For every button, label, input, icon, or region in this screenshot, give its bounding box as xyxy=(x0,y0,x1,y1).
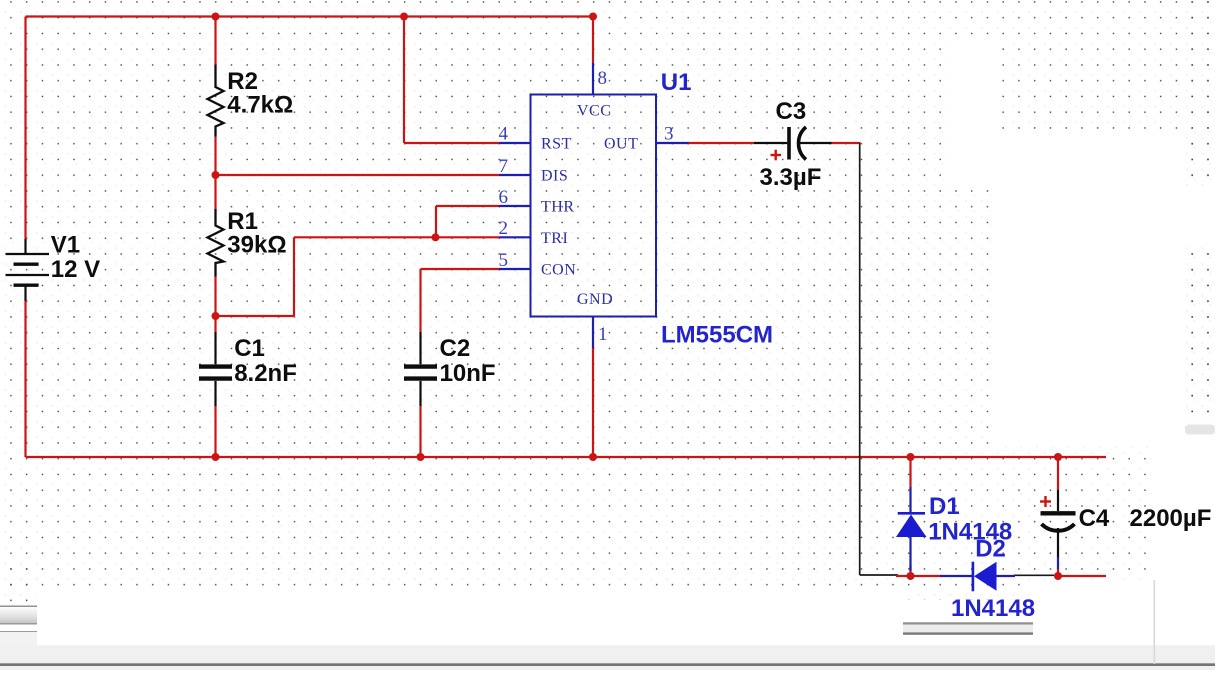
junction top RST xyxy=(400,13,408,21)
wire VCC pin8 drop xyxy=(592,17,594,64)
wire CON drop to C2 xyxy=(419,269,421,332)
wire C4 bottom lead red xyxy=(1057,568,1059,576)
wire D2 left lead red xyxy=(910,575,942,577)
wire battery negative to ground rail xyxy=(24,300,26,457)
wire C4 top lead red xyxy=(1057,457,1059,490)
op-amp/timer U1 LM555CM body xyxy=(531,95,657,317)
wire D1 bottom lead red xyxy=(909,565,911,576)
wire CON to pin5 xyxy=(421,268,500,270)
wire node TRI to pin2 xyxy=(294,236,499,238)
capacitor C4 2200uF leads xyxy=(1057,490,1059,511)
svg-text:2200µF: 2200µF xyxy=(1130,505,1212,532)
capacitor C1 8.2nF xyxy=(199,332,232,406)
svg-text:CON: CON xyxy=(541,262,576,279)
capacitor C4 plates xyxy=(1041,511,1076,515)
capacitor C2 10nF xyxy=(404,332,437,406)
battery V1 12V xyxy=(6,239,50,301)
svg-text:4: 4 xyxy=(499,124,509,145)
C4 plus polarity mark xyxy=(1040,496,1051,507)
svg-text:3: 3 xyxy=(664,124,674,145)
svg-text:D2: D2 xyxy=(975,536,1006,563)
svg-text:U1: U1 xyxy=(661,69,692,96)
svg-text:C4: C4 xyxy=(1079,505,1110,532)
junction C2 ground xyxy=(417,453,425,461)
wire R1 bottom lead xyxy=(214,277,216,317)
wire R2 bottom to node DIS xyxy=(214,137,216,176)
wire node TRI horizontal 1 xyxy=(216,315,295,317)
wire RST to pin4 xyxy=(404,142,499,144)
wire net VCC top xyxy=(26,15,594,17)
wire D2 right black link xyxy=(1014,574,1054,576)
svg-text:DIS: DIS xyxy=(541,168,568,185)
svg-text:OUT: OUT xyxy=(604,136,638,153)
pin stub TRI pin2 xyxy=(499,236,531,238)
wire GND pin1 drop xyxy=(592,347,594,457)
capacitor C3 plates xyxy=(787,127,791,160)
svg-text:C1: C1 xyxy=(234,335,265,362)
junction TRI/THR node xyxy=(432,233,440,241)
capacitor C3 3.3uF leads xyxy=(754,142,787,144)
junction D1 top xyxy=(907,453,915,461)
svg-text:8: 8 xyxy=(598,68,608,89)
svg-text:39kΩ: 39kΩ xyxy=(227,231,286,258)
svg-text:2: 2 xyxy=(499,218,509,239)
wire D1 top lead red xyxy=(909,457,911,487)
svg-text:TRI: TRI xyxy=(541,230,568,247)
wire OUT to C3 xyxy=(688,142,754,144)
svg-text:VCC: VCC xyxy=(577,103,611,120)
svg-text:C2: C2 xyxy=(440,335,471,362)
wire net VCC left drop xyxy=(24,17,26,240)
junction top pin8 xyxy=(589,13,597,21)
svg-text:6: 6 xyxy=(499,187,509,208)
wire R2 top lead xyxy=(214,17,216,65)
wire C3 to corner xyxy=(831,142,861,144)
svg-text:3.3µF: 3.3µF xyxy=(760,164,822,191)
wire node out right stub xyxy=(1058,575,1106,577)
junction DIS node xyxy=(212,171,220,179)
wire C2 bottom red xyxy=(419,406,421,457)
svg-text:1: 1 xyxy=(598,324,608,345)
C3 plus polarity mark xyxy=(771,150,782,161)
wire RST drop from top rail xyxy=(403,17,405,144)
svg-text:LM555CM: LM555CM xyxy=(661,321,773,348)
pin stub GND pin1 xyxy=(592,316,594,348)
svg-text:8.2nF: 8.2nF xyxy=(234,360,297,387)
resistor R2 4.7k xyxy=(208,65,224,137)
svg-text:12 V: 12 V xyxy=(51,256,100,283)
junction C1 ground xyxy=(212,453,220,461)
svg-text:THR: THR xyxy=(541,199,575,216)
wire THR branch vertical xyxy=(435,206,437,237)
svg-text:10nF: 10nF xyxy=(440,360,496,387)
svg-text:RST: RST xyxy=(541,136,572,153)
wire node DIS to pin7 xyxy=(216,174,500,176)
wire ground rail bottom xyxy=(26,456,1107,458)
junction D2/C4 node xyxy=(1054,572,1062,580)
junction R1/C1 node xyxy=(212,312,220,320)
wire black feedback vertical xyxy=(859,143,861,575)
svg-text:1N4148: 1N4148 xyxy=(951,595,1035,622)
svg-text:7: 7 xyxy=(499,156,509,177)
pin stub DIS pin7 xyxy=(499,174,531,176)
wire black feedback horizontal xyxy=(860,574,898,576)
svg-text:4.7kΩ: 4.7kΩ xyxy=(227,91,293,118)
junction D1/D2 node xyxy=(907,572,915,580)
wire R1 top lead xyxy=(214,175,216,209)
wire node TRI vertical xyxy=(293,237,295,316)
svg-text:D1: D1 xyxy=(929,493,960,520)
pin stub VCC pin8 xyxy=(592,63,594,95)
pin stub CON pin5 xyxy=(499,268,531,270)
junction C4 top xyxy=(1054,453,1062,461)
svg-text:5: 5 xyxy=(499,250,509,271)
pin stub OUT pin3 xyxy=(656,142,689,144)
junction top R2 xyxy=(212,13,220,21)
svg-text:V1: V1 xyxy=(51,232,80,259)
pin stub RST pin4 xyxy=(499,142,531,144)
svg-text:C3: C3 xyxy=(776,98,807,125)
diode D1 1N4148 xyxy=(896,487,927,571)
wire C1 top lead red xyxy=(214,316,216,332)
pin stub THR pin6 xyxy=(499,205,531,207)
resistor R1 39k xyxy=(208,209,224,277)
wire THR branch to pin6 xyxy=(436,205,499,207)
diode D2 1N4148 xyxy=(940,562,1015,592)
junction pin1 ground xyxy=(589,453,597,461)
wire stub into D1 bottom node xyxy=(896,575,910,577)
svg-text:GND: GND xyxy=(577,291,613,308)
wire C1 bottom red xyxy=(214,406,216,457)
